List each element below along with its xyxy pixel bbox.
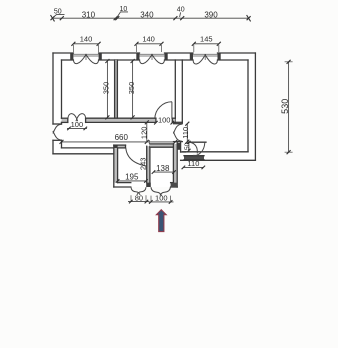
dim 80 <box>128 193 149 203</box>
svg-text:100: 100 <box>158 116 171 125</box>
bathroom left wall <box>114 145 118 187</box>
window 3 casement arcs <box>193 54 217 64</box>
bathroom door arc <box>126 148 146 166</box>
rooms bottom wall (bottom face) <box>62 121 176 123</box>
door room2 arc <box>155 102 172 119</box>
dim 530 right side <box>280 60 293 154</box>
rooms bottom wall gray core <box>62 119 176 122</box>
svg-text:100: 100 <box>71 120 84 129</box>
window 1 casement arcs <box>74 54 99 64</box>
top wall outer line segments <box>53 52 255 54</box>
svg-text:110: 110 <box>187 159 199 168</box>
svg-text:145: 145 <box>200 35 213 44</box>
dim 195 <box>116 172 148 182</box>
window 2 (140) glazing lines <box>140 54 165 60</box>
svg-text:10: 10 <box>120 6 128 13</box>
svg-text:350: 350 <box>127 82 136 95</box>
vestibule south entrance area <box>181 142 206 160</box>
dim 110 south entrance <box>182 159 206 169</box>
window 1 jamb blocks <box>70 53 102 60</box>
svg-text:310: 310 <box>82 11 96 20</box>
dim 100 bottom <box>149 194 174 204</box>
entrance double door arcs <box>190 142 205 155</box>
window dim 145 <box>192 35 221 52</box>
corridor east door jambs <box>174 124 183 142</box>
left wall inner line <box>61 60 63 148</box>
svg-text:100: 100 <box>155 194 168 203</box>
door1 jamb stubs <box>68 118 173 122</box>
bottom window 80 arcs <box>131 187 146 195</box>
dim 110 vertical (big room door) <box>181 122 190 144</box>
svg-text:340: 340 <box>140 11 154 20</box>
window 2 casement arcs <box>140 54 165 64</box>
svg-text:140: 140 <box>80 35 93 44</box>
partition wall 10cm between room1 and room2 <box>114 60 117 118</box>
svg-text:50: 50 <box>54 8 62 15</box>
window 2 jamb blocks <box>136 53 167 60</box>
north arrow <box>156 210 166 232</box>
svg-text:530: 530 <box>280 99 290 114</box>
bathroom right wall <box>173 142 180 187</box>
window dim 140 (middle) <box>135 35 164 52</box>
dim 243 <box>139 158 148 171</box>
dim 350 left <box>101 59 110 119</box>
left wall outer line <box>52 53 54 154</box>
svg-text:243: 243 <box>139 158 148 171</box>
dim 120 corridor width <box>140 120 149 143</box>
svg-text:138: 138 <box>156 164 170 173</box>
small tick on 660 line <box>148 140 150 144</box>
building footprint fill <box>53 53 255 187</box>
dim 138 <box>152 164 176 174</box>
rooms bottom wall (top face) <box>62 117 176 119</box>
svg-text:350: 350 <box>101 82 110 95</box>
entrance door arcs <box>53 124 62 140</box>
bathroom bottom wall <box>114 183 177 187</box>
window 1 (140) glazing lines <box>73 54 98 60</box>
corridor east door arcs <box>173 124 182 141</box>
door room2 dim 100 <box>154 116 174 125</box>
label 40 with leader <box>177 6 185 17</box>
door room1 double arcs <box>68 114 86 122</box>
svg-text:80: 80 <box>135 193 143 202</box>
window 3 (145) glazing lines <box>193 54 218 60</box>
svg-text:660: 660 <box>115 133 129 142</box>
bathroom middle wall <box>147 146 150 182</box>
jamb extension hairlines bottom windows <box>131 195 170 201</box>
svg-text:40: 40 <box>177 6 185 13</box>
dim 50 small <box>184 141 191 152</box>
window dim 140 (left) <box>71 35 100 52</box>
right wall <box>248 53 255 160</box>
top wall inner line segments <box>62 59 249 61</box>
svg-text:50: 50 <box>184 142 191 150</box>
big room bottom wall <box>181 152 256 161</box>
dim 660 corridor <box>60 133 178 144</box>
svg-text:195: 195 <box>125 172 139 181</box>
bathroom north wall east piece <box>150 144 174 147</box>
svg-text:390: 390 <box>204 11 218 20</box>
wall 40cm between room2 and big room <box>175 60 182 122</box>
corridor south wall left section <box>53 148 114 154</box>
label 10 with leader <box>117 6 128 17</box>
bottom window 100 arcs <box>151 187 170 195</box>
window 3 jamb blocks <box>190 53 221 60</box>
dim 350 right <box>127 59 136 119</box>
bathroom north wall west piece <box>114 145 126 148</box>
entrance door jambs in left wall <box>53 124 62 140</box>
top dimension line <box>51 15 251 21</box>
svg-text:120: 120 <box>140 127 149 140</box>
svg-text:110: 110 <box>181 127 190 139</box>
svg-text:140: 140 <box>142 35 155 44</box>
label 50 with leader <box>53 8 65 17</box>
door room1 dim 100 <box>67 120 87 130</box>
